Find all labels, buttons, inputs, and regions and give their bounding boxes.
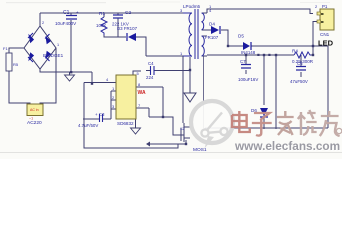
svg-text:BRIDGE1: BRIDGE1 [43,53,64,58]
svg-text:100uF16V: 100uF16V [238,77,258,82]
svg-text:AC220: AC220 [27,120,42,126]
svg-text:P1: P1 [322,4,328,9]
svg-text:+ C3: + C3 [95,112,105,117]
svg-text:LED: LED [318,39,334,48]
svg-text:R5: R5 [13,62,19,67]
svg-text:47uF50V: 47uF50V [290,79,308,84]
svg-text:0.25-300R: 0.25-300R [292,59,314,64]
svg-text:100K: 100K [96,23,106,28]
svg-text:D4: D4 [209,22,215,27]
svg-text:10uF400V: 10uF400V [55,21,77,26]
svg-text:IN4148: IN4148 [241,50,256,55]
svg-text:224: 224 [146,75,154,80]
svg-text:C7: C7 [240,59,246,64]
svg-text:C2: C2 [125,10,131,16]
svg-text:+: + [76,10,79,15]
svg-text:C4: C4 [148,61,154,66]
svg-text:12: 12 [180,126,185,131]
svg-text:FR107: FR107 [205,35,219,40]
svg-text:D5: D5 [238,34,244,39]
svg-text:WA: WA [138,90,146,96]
svg-text:R4: R4 [292,49,298,54]
svg-text:4.7uF/50V: 4.7uF/50V [78,123,98,128]
svg-text:R1: R1 [99,11,105,17]
svg-text:AC in: AC in [30,108,39,112]
svg-text:CN1: CN1 [320,32,330,37]
svg-text:2: 2 [42,21,44,25]
svg-text:D3 FR107: D3 FR107 [117,26,138,31]
svg-text:LPodm5: LPodm5 [183,4,201,9]
svg-text:www.elecfans.com: www.elecfans.com [234,139,340,153]
svg-text:C1: C1 [63,10,70,16]
svg-text:~1: ~1 [29,117,33,121]
svg-text:C6: C6 [297,61,303,66]
svg-text:1: 1 [57,43,59,47]
svg-text:SD6832: SD6832 [117,121,134,126]
svg-text:F1: F1 [3,46,8,51]
